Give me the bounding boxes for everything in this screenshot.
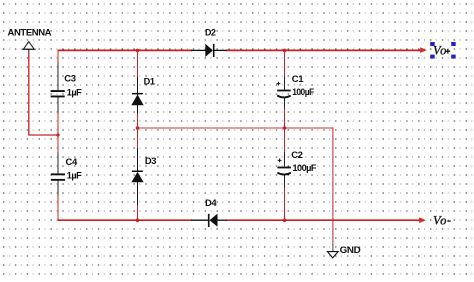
wire antenna to C3/C4 junction — [29, 53, 58, 136]
wire D1/D3 column x=137 — [137, 50, 139, 77]
capacitor C2 — [277, 150, 316, 188]
node Vo- terminal arrow — [419, 217, 426, 223]
svg-text:100µF: 100µF — [292, 87, 314, 98]
junction middle rail / C1-C2 — [283, 126, 287, 130]
ground GND symbol — [327, 252, 338, 258]
junction bottom rail / D3 — [136, 218, 140, 222]
capacitor C1 — [277, 74, 315, 108]
svg-text:1µF: 1µF — [67, 171, 82, 182]
junction antenna / C3-C4 — [56, 133, 59, 136]
svg-text:D1: D1 — [144, 76, 156, 87]
wire bottom rail right segment — [226, 219, 420, 221]
wire top rail right segment — [226, 49, 421, 51]
wire middle rail to GND vertical — [332, 127, 334, 245]
svg-text:D2: D2 — [205, 28, 216, 39]
ground GND pin — [332, 244, 334, 252]
svg-text:C4: C4 — [66, 157, 78, 168]
svg-text:D3: D3 — [145, 156, 156, 167]
wire top rail left segment — [58, 49, 193, 51]
svg-text:C1: C1 — [292, 74, 304, 85]
wire left column x=58 (C3 top / C4 bottom reds) — [57, 50, 59, 64]
antenna symbol — [22, 42, 36, 53]
diode D4 — [191, 198, 227, 227]
junction bottom rail / C2 — [283, 218, 287, 222]
svg-text:100µF: 100µF — [293, 163, 317, 174]
wire bottom rail left segment — [58, 219, 192, 221]
svg-text:C2: C2 — [291, 150, 302, 161]
wire middle rail y=128 — [137, 127, 333, 129]
diode D3 — [131, 148, 156, 205]
wire C1/C2 column x=284 — [284, 50, 286, 76]
svg-text:1µF: 1µF — [67, 87, 82, 98]
svg-text:GND: GND — [340, 245, 361, 256]
svg-text:ANTENNA: ANTENNA — [8, 28, 52, 39]
svg-text:o: o — [440, 213, 446, 227]
svg-text:o: o — [440, 43, 446, 57]
svg-text:D4: D4 — [205, 198, 217, 209]
node Vo+ selection handles — [430, 42, 456, 59]
svg-text:C3: C3 — [64, 74, 75, 85]
junction top rail / D1 — [136, 49, 140, 53]
diode D2 — [191, 28, 227, 57]
diode D1 — [131, 76, 155, 113]
junction middle rail / D1-D3 — [136, 126, 140, 130]
capacitor C3 — [51, 63, 82, 113]
node Vo+ terminal arrow — [420, 47, 427, 53]
capacitor C4 — [51, 153, 82, 196]
junction top rail / C1 — [283, 49, 287, 53]
